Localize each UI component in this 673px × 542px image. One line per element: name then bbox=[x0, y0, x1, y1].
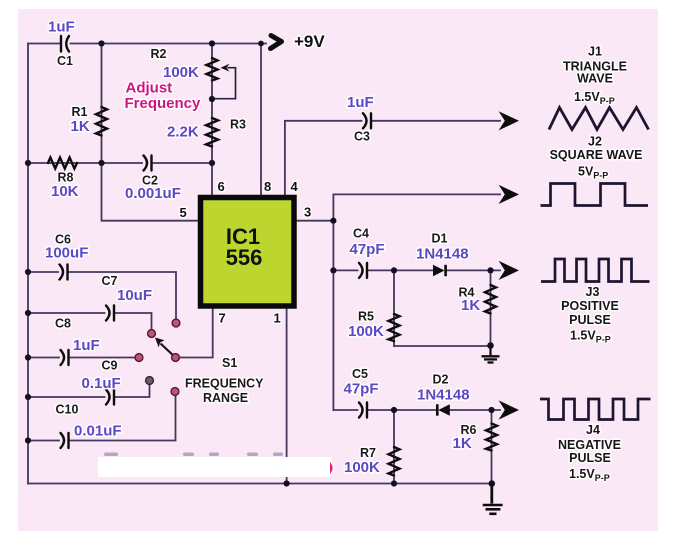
waveform positive pulse J3 bbox=[541, 259, 650, 282]
svg-text:PULSE: PULSE bbox=[569, 313, 611, 327]
wire R8/C2 net bbox=[28, 162, 142, 164]
ground GND2 bbox=[483, 484, 503, 514]
wire C5/D2 line bbox=[333, 409, 357, 411]
svg-text:J1: J1 bbox=[588, 45, 602, 59]
capacitor C2 bbox=[144, 156, 152, 171]
switch S1 contact D bbox=[146, 377, 154, 385]
node top R1 bbox=[98, 40, 104, 46]
svg-text:0.001uF: 0.001uF bbox=[125, 185, 181, 202]
svg-text:SQUARE WAVE: SQUARE WAVE bbox=[550, 148, 643, 162]
node C4/R5/D1 bbox=[391, 267, 397, 273]
svg-text:7: 7 bbox=[219, 311, 226, 326]
svg-text:R3: R3 bbox=[230, 118, 246, 132]
node pin8 tap bbox=[258, 41, 264, 47]
capacitor C5 bbox=[359, 403, 367, 418]
svg-text:1K: 1K bbox=[461, 297, 480, 314]
svg-text:100K: 100K bbox=[163, 64, 199, 81]
svg-text:R5: R5 bbox=[358, 310, 374, 324]
wire top rail +9V net bbox=[28, 43, 60, 45]
svg-text:WAVE: WAVE bbox=[577, 72, 613, 86]
wire R4 column bbox=[490, 270, 492, 346]
svg-text:0.01uF: 0.01uF bbox=[74, 423, 122, 440]
svg-text:5: 5 bbox=[180, 205, 187, 220]
svg-text:47pF: 47pF bbox=[344, 381, 379, 398]
svg-text:D2: D2 bbox=[433, 373, 449, 387]
switch S1 common contact bbox=[172, 354, 180, 362]
capacitor C9 bbox=[106, 390, 114, 405]
node left bus C8 bbox=[25, 354, 31, 360]
node R3 bottom pin6 bbox=[209, 160, 215, 166]
svg-text:10K: 10K bbox=[51, 183, 79, 200]
wire R5 column bbox=[393, 270, 395, 346]
svg-text:Adjust: Adjust bbox=[126, 80, 173, 97]
diode D1 bbox=[433, 265, 446, 277]
output arrow J4 bbox=[499, 400, 519, 419]
svg-text:C7: C7 bbox=[102, 274, 118, 288]
svg-text:C10: C10 bbox=[56, 403, 79, 417]
svg-text:J3: J3 bbox=[586, 285, 600, 299]
switch S1 contact B bbox=[148, 330, 156, 338]
node D2/R6 out bbox=[488, 407, 494, 413]
wire J2 line bbox=[333, 193, 500, 195]
node R4 bottom gnd bbox=[487, 342, 494, 349]
output arrow J1 bbox=[499, 111, 519, 130]
wire R2/R3 column bbox=[211, 44, 213, 164]
waveform negative pulse J4 bbox=[540, 399, 651, 420]
wire C8 line bbox=[28, 357, 59, 359]
node C4 tap bbox=[330, 267, 336, 273]
node R1 bottom bbox=[98, 160, 104, 166]
diode D2 bbox=[437, 404, 450, 416]
output arrow J2 bbox=[499, 185, 519, 204]
node pin1 bottom bbox=[284, 480, 290, 486]
node R2 wiper junction bbox=[209, 96, 215, 102]
svg-text:100K: 100K bbox=[348, 323, 384, 340]
IC U1 556 body bbox=[201, 198, 295, 307]
resistor R3 bbox=[206, 118, 218, 147]
svg-text:R1: R1 bbox=[72, 105, 88, 119]
wire pin6 bbox=[211, 163, 213, 196]
waveform triangle J1 bbox=[549, 108, 649, 130]
wire C4/D1 line bbox=[333, 269, 357, 271]
svg-text:10uF: 10uF bbox=[117, 287, 152, 304]
wire C6 line bbox=[28, 271, 58, 273]
wire left bus bbox=[27, 44, 29, 484]
svg-text:J2: J2 bbox=[588, 135, 602, 149]
resistor R5 bbox=[389, 314, 400, 341]
capacitor C4 bbox=[359, 263, 367, 278]
svg-text:100K: 100K bbox=[344, 459, 380, 476]
capacitor C8 bbox=[61, 350, 69, 365]
wire R5-R4 bottom bbox=[394, 345, 491, 347]
white patch box bbox=[98, 457, 332, 477]
svg-text:1K: 1K bbox=[453, 435, 472, 452]
wire R7 column bbox=[393, 410, 395, 484]
svg-text:1N4148: 1N4148 bbox=[417, 387, 470, 404]
svg-text:1uF: 1uF bbox=[48, 19, 75, 36]
svg-text:1uF: 1uF bbox=[73, 337, 100, 354]
switch S1 wiper bbox=[155, 338, 176, 358]
wire right bus bbox=[332, 194, 334, 410]
node D1/R4 out bbox=[487, 267, 493, 273]
svg-text:S1: S1 bbox=[222, 356, 237, 370]
svg-text:PULSE: PULSE bbox=[569, 451, 611, 465]
magenta remnant bbox=[330, 462, 333, 474]
wire pin5 elbow bbox=[102, 163, 199, 221]
capacitor C1 bbox=[61, 36, 69, 52]
svg-text:47pF: 47pF bbox=[350, 241, 385, 258]
capacitor C6 bbox=[60, 265, 68, 280]
node R7 bottom bbox=[391, 480, 397, 486]
capacitor C3 bbox=[363, 113, 371, 128]
svg-text:1K: 1K bbox=[71, 118, 90, 135]
+9V supply arrow bbox=[271, 36, 282, 49]
svg-text:C9: C9 bbox=[102, 359, 118, 373]
wire pin3 bbox=[296, 220, 333, 222]
svg-text:R7: R7 bbox=[360, 446, 376, 460]
wire C10 line bbox=[28, 440, 59, 442]
resistor R1 bbox=[96, 107, 107, 136]
svg-text:+9V: +9V bbox=[294, 32, 325, 51]
resistor R6 bbox=[486, 424, 497, 451]
svg-text:4: 4 bbox=[291, 179, 299, 194]
svg-text:3: 3 bbox=[304, 205, 311, 220]
resistor R8 bbox=[48, 158, 77, 169]
svg-text:Frequency: Frequency bbox=[125, 95, 202, 112]
node left bus R8 bbox=[25, 160, 31, 166]
wire pin8 bbox=[260, 44, 262, 197]
node left bus C7 bbox=[25, 310, 31, 316]
switch S1 contact C bbox=[135, 354, 143, 362]
capacitor C10 bbox=[61, 433, 69, 448]
svg-text:FREQUENCY: FREQUENCY bbox=[185, 377, 264, 391]
node left bus C9 bbox=[25, 394, 31, 400]
capacitor C7 bbox=[106, 306, 114, 321]
resistor R4 bbox=[485, 285, 496, 314]
switch S1 contact A bbox=[172, 319, 180, 327]
svg-text:1: 1 bbox=[274, 311, 281, 326]
wire pin7 to switch common bbox=[176, 308, 213, 358]
svg-text:1uF: 1uF bbox=[347, 94, 374, 111]
svg-text:D1: D1 bbox=[432, 232, 448, 246]
svg-text:RANGE: RANGE bbox=[203, 391, 248, 405]
svg-text:C1: C1 bbox=[57, 54, 73, 68]
wire pin4 / C3 line bbox=[285, 121, 362, 196]
svg-text:1N4148: 1N4148 bbox=[416, 246, 469, 263]
switch S1 contact E bbox=[171, 388, 179, 396]
wire pin1 bbox=[286, 308, 288, 484]
wire bottom rail bbox=[28, 483, 492, 485]
wire C9 line bbox=[28, 396, 105, 398]
wire R1 column bbox=[101, 44, 103, 164]
svg-text:556: 556 bbox=[226, 245, 263, 270]
svg-text:C5: C5 bbox=[352, 367, 368, 381]
node pin3 bbox=[330, 218, 336, 224]
svg-text:C4: C4 bbox=[353, 227, 369, 241]
wire C7 line bbox=[28, 312, 105, 314]
ground GND1 bbox=[482, 346, 500, 363]
svg-text:J4: J4 bbox=[586, 423, 600, 437]
watermark remnant dashes bbox=[104, 453, 283, 457]
wire R6 column bbox=[491, 410, 493, 484]
R2 wiper bbox=[214, 68, 236, 99]
svg-text:8: 8 bbox=[264, 179, 271, 194]
svg-text:100uF: 100uF bbox=[45, 245, 88, 262]
svg-text:6: 6 bbox=[218, 179, 225, 194]
svg-text:R2: R2 bbox=[151, 47, 167, 61]
svg-text:C8: C8 bbox=[55, 317, 71, 331]
node left bus C10 bbox=[25, 437, 31, 443]
svg-text:POSITIVE: POSITIVE bbox=[561, 299, 619, 313]
node top C1/R2 bbox=[209, 40, 215, 46]
output arrow J3 bbox=[499, 261, 519, 280]
node R6 bottom gnd bbox=[489, 480, 496, 487]
svg-text:0.1uF: 0.1uF bbox=[82, 375, 121, 392]
waveform square J2 bbox=[541, 184, 649, 206]
resistor R7 bbox=[389, 447, 400, 476]
node left bus C6 bbox=[25, 269, 31, 275]
svg-text:NEGATIVE: NEGATIVE bbox=[558, 438, 621, 452]
svg-text:2.2K: 2.2K bbox=[167, 124, 199, 141]
node C5/R7/D2 bbox=[391, 407, 397, 413]
resistor R2 pot bbox=[207, 58, 218, 81]
svg-text:C3: C3 bbox=[354, 130, 370, 144]
